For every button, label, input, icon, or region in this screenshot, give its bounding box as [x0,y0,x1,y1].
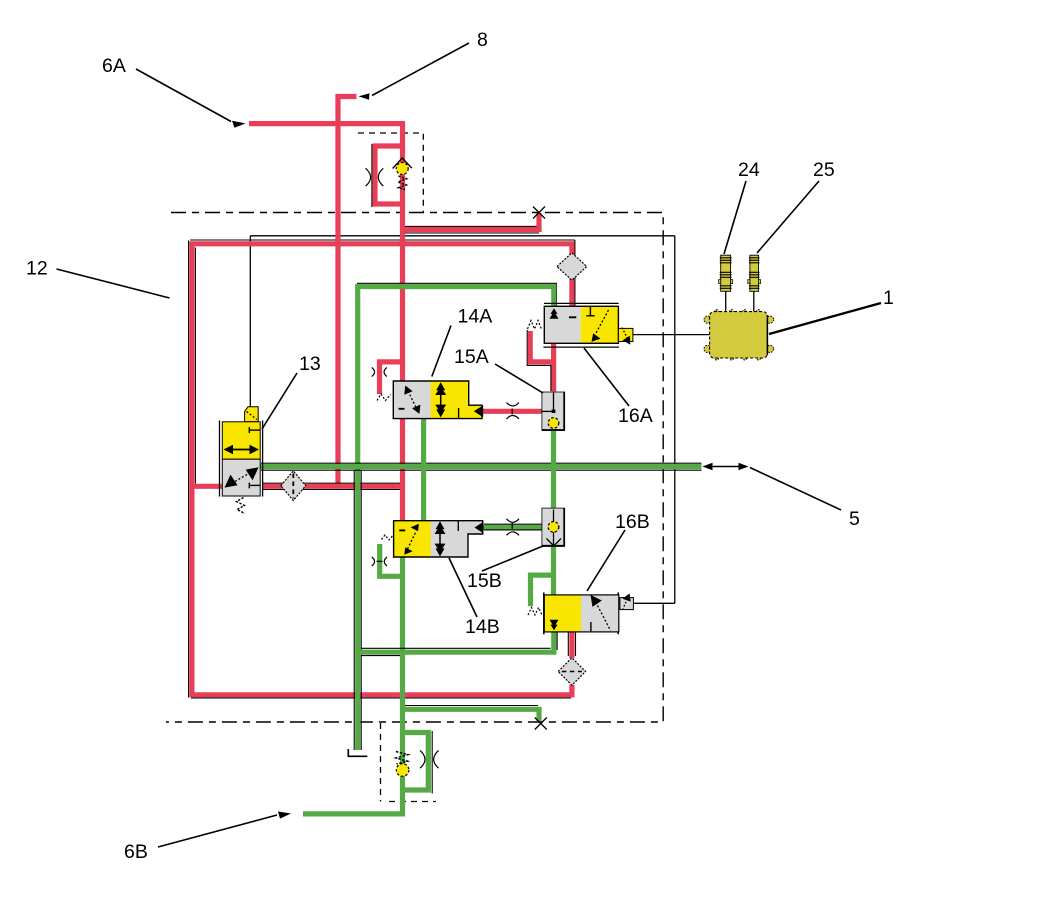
leader 24 [724,181,746,254]
ECM component 1 [704,310,774,360]
outline 16A pilot inner [527,330,551,391]
plugged port X bottom [535,718,547,730]
leader 14A [432,326,451,377]
leader 8 [372,43,469,96]
outline above tank-test red branch [405,225,539,227]
svg-text:24: 24 [738,159,760,181]
outline right of 16A riser [574,240,576,306]
svg-text:8: 8 [477,29,488,51]
wire solenoid rail horizontal (valve 13 to right side) [250,235,675,237]
outline right of return vertical [360,470,362,750]
leader 6B [158,815,277,847]
filter above 16A [557,253,587,280]
outline below 16B return link left part [362,655,401,657]
wire check valve bypass loop top [375,146,403,204]
outline right of bottom check loop [431,731,433,794]
outline below port5 green line [261,469,702,471]
filter below 16B [558,658,585,685]
outline right of 16B return drop [556,632,558,650]
svg-text:5: 5 [849,508,860,530]
leader 6A [136,69,231,122]
wire 15B to 16B green riser [551,546,556,595]
svg-text:25: 25 [813,159,835,181]
leader 25 [757,181,819,253]
svg-text:15A: 15A [454,346,489,368]
svg-text:16A: 16A [618,405,653,427]
wire port 8 stub and signal vertical [338,97,356,487]
leader 15B [482,546,543,571]
leader 1 [769,303,881,334]
outline left of supply vertical [188,241,190,698]
wire 16B green to return column [360,632,554,652]
svg-text:1: 1 [883,287,894,309]
wire connector 25 to ECM [753,291,755,311]
outline left of check loop [371,144,373,207]
outline left of 16B red drain [567,632,569,656]
wire green return main (16A top / tank column) [358,287,554,751]
outline above green test branch [405,705,538,707]
outline below valve13 red line [263,489,403,491]
svg-text:15B: 15B [467,570,502,592]
wire 16A red pilot loop [530,331,553,362]
svg-text:12: 12 [26,258,48,280]
wire 14A-14B red riser [400,419,405,521]
arrowhead port5 left [703,463,713,471]
svg-text:16B: 16B [615,511,650,533]
outline above valve13 red line [263,482,403,484]
leader 12 [57,269,170,298]
outline above 16B return link [361,647,551,649]
wire to solenoid 13 [249,236,251,407]
pressure sensor connector 24 [719,255,733,291]
check valve top (makeup, 8 circuit) [366,158,412,190]
wire 16B red drain through filter [569,632,574,658]
wire 14B to 15B green line [483,525,542,530]
wire to solenoid 16B [633,602,674,604]
wire valve13 inlet [194,484,222,489]
wire 14B green pilot branch [380,544,403,576]
wire filter to 16A top [569,277,574,306]
port 5 double arrow line [705,466,746,468]
SECTION: labels [57,43,882,847]
leader 16B [587,530,625,591]
wire check valve bypass loop bottom [403,733,429,791]
outline above green return main [357,283,556,306]
wire 14A red pilot branch [380,362,403,394]
arrowhead 6A [232,121,246,128]
outline right of 16B red drain [575,632,577,656]
arrowhead 6B [278,812,291,819]
wire 14B return column to port 6B [303,557,403,814]
outline below 15B green line [484,529,542,531]
outline left of return vertical [353,470,355,750]
arrowhead 8 [359,93,370,100]
makeup valve enclosure bottom (dashed) [381,723,437,802]
valve 14A (pressure reducing) [372,368,483,419]
leader 14B [449,558,477,617]
pressure sensor connector 25 [748,255,761,291]
wire green test-port branch with X stub [403,709,540,721]
plugged port X top [533,207,545,219]
svg-text:14B: 14B [465,616,500,638]
valve 14B (pressure reducing) [372,521,484,566]
outline below tank-test red branch [405,232,539,234]
outline right of supply vertical [194,248,196,484]
wire solenoid 16A to ECM 1 [633,334,710,336]
SECTION: pipes [189,97,702,814]
leader 16A [584,348,629,406]
leader 15A [495,364,543,393]
manifold boundary (dash-dot enclosure) [166,213,663,723]
outline above supply top line [190,239,575,241]
wire 15A to 14A red line [483,409,542,414]
leader 13 [262,373,297,429]
arrowhead port5 right [739,463,749,471]
wire right rail vertical [674,236,676,604]
outline above 15B green line [484,523,542,525]
node supply C-loop (pressure main 12) [192,244,572,695]
wire 14A-14B green riser [421,419,426,521]
shuttle resolver 15A [507,392,566,431]
filter after valve 13 [281,471,306,501]
wire red test-port branch with X stub [403,213,540,230]
valve 13 (solenoid selector) [220,407,263,514]
wire port 5 green line [260,464,701,469]
svg-text:13: 13 [299,353,321,375]
wire valve13 outlet through filter to node A [263,484,403,489]
valve 16B (solenoid relief) [528,593,633,635]
svg-text:14A: 14A [458,306,493,328]
valve 16A (solenoid relief) [528,303,633,347]
wire 16A to 15A red line [551,343,556,391]
wire 16B green pilot branch [531,575,554,606]
wire 15A-15B green riser [551,431,556,509]
wire 6A port line [249,124,403,381]
outline above port5 green line [261,462,702,464]
check valve bottom (makeup, 6B circuit) [396,750,439,776]
tank symbol [348,749,367,756]
svg-text:6B: 6B [124,841,148,863]
outline below supply bottom line [191,697,571,699]
shuttle resolver 15B [507,508,566,546]
makeup valve enclosure top (dashed) [358,133,423,212]
wire connector 24 to ECM [725,291,727,311]
leader 5 [750,468,841,511]
svg-text:6A: 6A [102,55,126,77]
